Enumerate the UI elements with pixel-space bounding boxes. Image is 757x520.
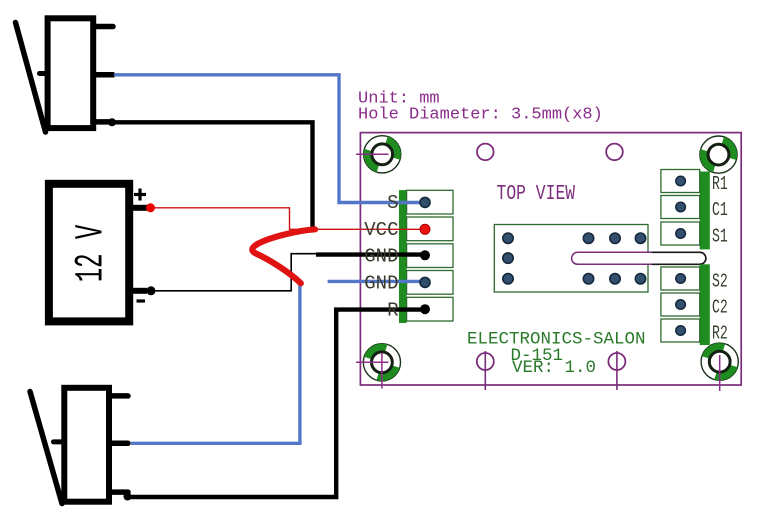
wire black thick to GND bbox=[316, 252, 424, 256]
connector J2 pin boxes bbox=[661, 170, 700, 343]
svg-text:C1: C1 bbox=[712, 199, 728, 221]
pin label C1 bbox=[712, 199, 728, 221]
pin label GND2 bbox=[364, 273, 398, 295]
battery minus terminal dot bbox=[147, 286, 156, 295]
silk text Hole Diameter bbox=[358, 106, 603, 125]
battery minus sign bbox=[137, 299, 146, 302]
pin label R bbox=[387, 300, 398, 322]
svg-text:12 V: 12 V bbox=[69, 225, 114, 283]
svg-text:S2: S2 bbox=[712, 270, 728, 292]
connector J2 right green bars bbox=[700, 172, 710, 346]
slot oval bbox=[572, 252, 706, 264]
hole top-middle-right bbox=[606, 144, 623, 161]
svg-text:S1: S1 bbox=[712, 225, 728, 247]
silk text Unit: mm bbox=[358, 90, 440, 109]
silk text TOP VIEW bbox=[497, 181, 576, 206]
svg-text:S: S bbox=[387, 192, 398, 214]
pin label R1 bbox=[712, 173, 728, 195]
hole bottom-middle-right bbox=[608, 351, 625, 390]
relay footprint pads bbox=[503, 233, 646, 284]
svg-text:VCC: VCC bbox=[364, 219, 398, 241]
pin dot R bbox=[420, 304, 430, 314]
junction dot SW2 bottom bbox=[124, 493, 132, 501]
silk text VER: 1.0 bbox=[512, 358, 596, 378]
pin dot VCC bbox=[420, 224, 430, 234]
battery BT1 12V bbox=[49, 184, 147, 322]
svg-text:R2: R2 bbox=[712, 322, 728, 344]
mounting pad bottom-right bbox=[701, 338, 738, 391]
wire blue SW2 vertical bbox=[131, 284, 300, 444]
connector J1 left green bar bbox=[399, 190, 407, 323]
mounting pad top-right bbox=[695, 136, 741, 173]
svg-text:C2: C2 bbox=[712, 296, 728, 318]
svg-text:Hole Diameter: 3.5mm(x8): Hole Diameter: 3.5mm(x8) bbox=[358, 106, 603, 125]
wire blue SW1 to S bbox=[114, 75, 424, 203]
svg-text:GND: GND bbox=[364, 246, 398, 268]
pin label GND bbox=[364, 246, 398, 268]
pin dot GND bbox=[420, 250, 430, 260]
hole bottom-middle-left bbox=[477, 351, 494, 390]
mounting pad top-left bbox=[356, 136, 405, 173]
hole top-middle-left bbox=[477, 144, 494, 161]
pin label R2 bbox=[712, 322, 728, 344]
pin label S1 bbox=[712, 225, 728, 247]
switch SW2 bbox=[30, 388, 128, 504]
svg-text:R1: R1 bbox=[712, 173, 728, 195]
wire red battery plus to VCC bbox=[150, 208, 424, 230]
silk text D-151 bbox=[511, 346, 564, 366]
connector J2 pin dots bbox=[676, 176, 686, 335]
PCB board outline bbox=[360, 133, 741, 385]
junction dot SW1 bottom bbox=[108, 118, 116, 126]
pin label C2 bbox=[712, 296, 728, 318]
pin label S2 bbox=[712, 270, 728, 292]
wire black battery minus thin bbox=[151, 254, 317, 291]
relay footprint outline bbox=[494, 225, 648, 293]
red squiggle annotation bbox=[252, 229, 315, 283]
switch SW1 bbox=[16, 18, 114, 132]
battery plus sign bbox=[134, 189, 146, 201]
svg-text:VER: 1.0: VER: 1.0 bbox=[512, 358, 596, 378]
pin dot S bbox=[420, 197, 430, 207]
svg-text:R: R bbox=[387, 300, 398, 322]
connector J1 pin boxes bbox=[407, 190, 453, 321]
wire black SW1 down bbox=[112, 122, 313, 227]
battery plus terminal dot bbox=[146, 203, 155, 212]
silk text ELECTRONICS-SALON bbox=[467, 330, 646, 350]
svg-text:TOP VIEW: TOP VIEW bbox=[497, 181, 576, 206]
pin label S bbox=[387, 192, 398, 214]
pin dot GND2 bbox=[420, 277, 430, 287]
svg-text:GND: GND bbox=[364, 273, 398, 295]
wire black SW2 to R bbox=[128, 310, 425, 497]
pin label VCC bbox=[364, 219, 398, 241]
mounting pad bottom-left bbox=[356, 339, 401, 388]
wire blue to GND2 bbox=[328, 280, 424, 283]
